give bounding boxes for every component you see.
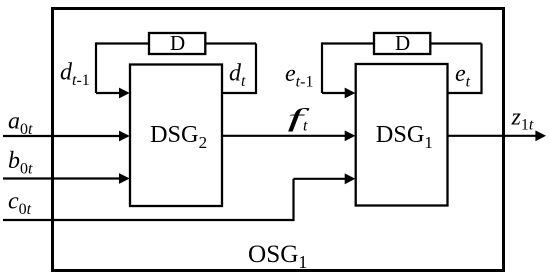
wire input a0t: [3, 135, 121, 137]
wire e_t from DSG1 right edge: [448, 92, 482, 94]
wire d_t vertical: [255, 44, 257, 95]
arrow into DSG2 (d_t-1): [119, 88, 130, 99]
wire input b0t: [3, 177, 121, 179]
wire d_t from DSG2 right edge: [222, 92, 256, 94]
svg-text:a0t: a0t: [8, 109, 33, 139]
wire input c0t horizontal: [3, 219, 294, 221]
wire d_t-1 vertical: [95, 42, 97, 93]
arrow into DSG2 (a0t): [119, 131, 130, 142]
arrow into DSG1 (c0t): [345, 173, 356, 184]
svg-text:D: D: [170, 31, 185, 55]
wire e_t-1 into DSG1: [322, 92, 346, 94]
svg-text:c0t: c0t: [8, 189, 32, 219]
arrow into DSG1 (f_t): [345, 130, 356, 141]
wire c0t into DSG1: [294, 178, 347, 180]
arrow into DSG2 (b0t): [119, 173, 130, 184]
svg-text:b0t: b0t: [8, 148, 33, 178]
svg-text:dt-1: dt-1: [60, 60, 90, 90]
svg-text:D: D: [395, 31, 410, 55]
svg-text:dt: dt: [229, 61, 246, 91]
wire D-left output to left: [96, 42, 149, 44]
svg-text:OSG1: OSG1: [248, 241, 307, 272]
svg-text:et-1: et-1: [285, 61, 313, 91]
wire f_t from DSG2 to DSG1: [222, 135, 346, 137]
block DSG1: [356, 64, 448, 206]
svg-text:DSG1: DSG1: [376, 121, 433, 152]
wire c0t vertical riser: [292, 179, 294, 221]
delay D (right): [374, 33, 430, 54]
wire d_t-1 into DSG2: [96, 92, 121, 94]
wire e_t into D (right): [430, 42, 481, 44]
outer box OSG1: [53, 9, 504, 271]
svg-text:t: t: [303, 118, 308, 135]
svg-text:DSG2: DSG2: [150, 121, 207, 152]
arrow into DSG1 (e_t-1): [345, 88, 356, 99]
wire output z1t: [448, 135, 537, 137]
block DSG2: [130, 65, 222, 207]
delay D (left): [149, 33, 205, 54]
wire e_t-1 vertical: [321, 42, 323, 93]
wire D-right output to left: [322, 42, 374, 44]
svg-text:z1t: z1t: [511, 105, 534, 134]
wire d_t into D (left): [205, 42, 256, 44]
arrow output z1t: [535, 130, 546, 141]
svg-text:et: et: [455, 61, 471, 91]
wire e_t vertical: [480, 44, 482, 95]
